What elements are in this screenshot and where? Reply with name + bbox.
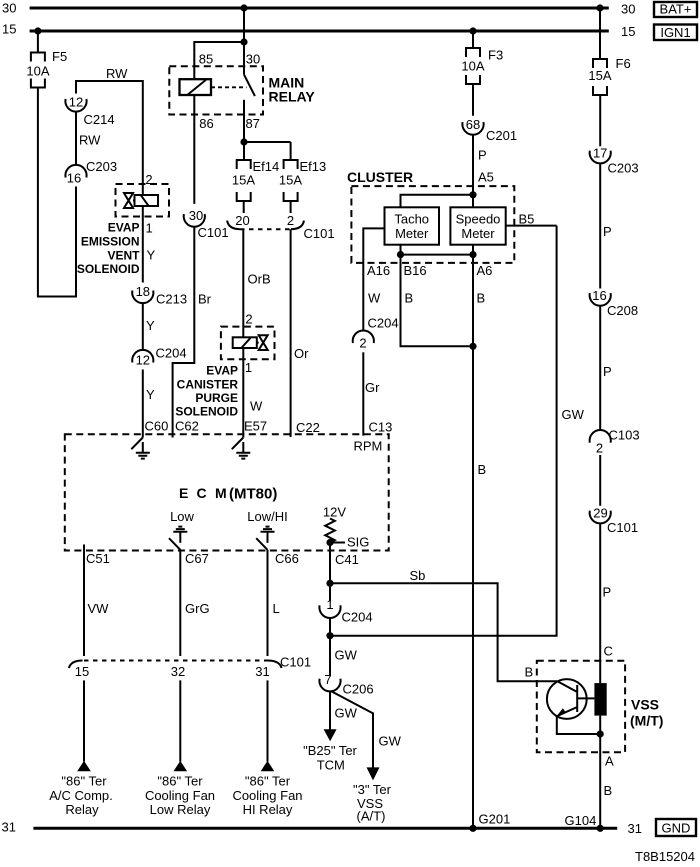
svg-text:C213: C213 — [156, 292, 187, 307]
svg-text:1: 1 — [245, 360, 252, 375]
wire Or: C101-2 to ECM pin C22 — [290, 229, 292, 437]
EVAP emission vent solenoid box — [116, 184, 170, 217]
svg-text:A16: A16 — [367, 263, 390, 278]
label EVAP EMISSION VENT SOLENOID — [77, 221, 140, 277]
ECM output C51 wire — [83, 545, 85, 657]
junction dot B16/A6 join — [469, 343, 476, 350]
svg-text:Ef14: Ef14 — [253, 159, 280, 174]
CLUSTER dashed box — [351, 186, 514, 263]
svg-text:(MT80): (MT80) — [229, 486, 277, 503]
wire bus15 to fuse F5 — [37, 31, 39, 53]
svg-text:12: 12 — [69, 95, 83, 110]
svg-text:P: P — [603, 224, 612, 239]
GND terminal box — [656, 819, 696, 836]
svg-text:C51: C51 — [86, 551, 110, 566]
svg-text:EVAP: EVAP — [108, 221, 140, 235]
wire F6 to C203 — [599, 95, 601, 146]
connector C101 pins 15/32/31 row — [69, 655, 311, 680]
label ECM (MT80) — [179, 485, 277, 503]
svg-text:F6: F6 — [616, 56, 631, 71]
junction dot G201 — [469, 825, 476, 832]
svg-text:15: 15 — [75, 664, 89, 679]
svg-text:C203: C203 — [608, 161, 639, 176]
svg-text:31: 31 — [2, 820, 16, 835]
svg-text:C60: C60 — [145, 419, 169, 434]
connector C214 pin 12 — [65, 95, 114, 128]
svg-text:Y: Y — [146, 318, 155, 333]
svg-text:T8B15204: T8B15204 — [635, 849, 695, 864]
svg-text:RELAY: RELAY — [269, 89, 316, 105]
fuse F5 — [26, 49, 67, 88]
svg-text:Cooling Fan: Cooling Fan — [145, 788, 215, 803]
connector C206 pin 7 — [319, 672, 373, 697]
svg-text:C214: C214 — [84, 112, 115, 127]
svg-text:G104: G104 — [565, 813, 597, 828]
svg-text:15A: 15A — [279, 173, 302, 188]
svg-text:(A/T): (A/T) — [357, 809, 386, 824]
connector C201 pin 68 — [462, 117, 517, 143]
label VSS (M/T) — [630, 697, 663, 729]
svg-text:B: B — [604, 783, 613, 798]
svg-text:"86" Ter: "86" Ter — [61, 774, 107, 789]
wire C204-1 down to C206 — [329, 618, 331, 676]
ground switch at C60 — [131, 438, 150, 459]
svg-text:C103: C103 — [609, 428, 640, 443]
transistor Q VSS — [547, 679, 595, 719]
connector C204 pin 2 — [353, 316, 399, 351]
wire VSS element to bus31 G104 — [599, 716, 601, 829]
svg-text:G201: G201 — [479, 812, 511, 827]
main relay coil — [180, 79, 212, 95]
wire SIG stub — [330, 542, 345, 544]
svg-text:12: 12 — [136, 353, 150, 368]
wire Br: C101-30 down, jog left, to ECM pin C62 — [173, 227, 195, 438]
junction dot bus15/F3 — [469, 27, 476, 34]
svg-text:1: 1 — [326, 597, 333, 612]
svg-text:30: 30 — [189, 208, 203, 223]
svg-text:TCM: TCM — [317, 758, 345, 773]
speedo meter box — [450, 207, 505, 244]
EVAP canister purge solenoid box — [221, 327, 275, 360]
svg-text:C62: C62 — [175, 419, 199, 434]
svg-text:Low Relay: Low Relay — [150, 802, 211, 817]
svg-text:C41: C41 — [335, 552, 359, 567]
svg-text:C101: C101 — [304, 226, 335, 241]
svg-text:29: 29 — [593, 506, 607, 521]
arrow to B25 TCM — [324, 729, 337, 741]
svg-text:2: 2 — [287, 213, 294, 228]
svg-text:15: 15 — [621, 24, 635, 39]
svg-text:E57: E57 — [244, 419, 267, 434]
wire P C101 to VSS — [599, 523, 601, 683]
svg-text:SIG: SIG — [347, 535, 369, 550]
svg-text:B: B — [477, 291, 486, 306]
svg-text:30: 30 — [621, 2, 635, 17]
wire C41 down from SIG node — [329, 543, 331, 602]
connector C208 pin 16 — [590, 288, 638, 318]
wire C67 — [179, 550, 181, 656]
wire relay pin 30 — [243, 42, 245, 75]
svg-text:L: L — [273, 601, 280, 616]
wire A5 branch to tacho meter — [401, 195, 474, 208]
wire RW net: C214 stub, horizontal, down to vent solenoid — [76, 81, 143, 196]
svg-text:SOLENOID: SOLENOID — [175, 405, 238, 419]
svg-text:GW: GW — [562, 407, 585, 422]
svg-text:20: 20 — [235, 213, 249, 228]
label B25 Ter TCM — [303, 743, 357, 773]
svg-text:P: P — [478, 148, 487, 163]
svg-text:EMISSION: EMISSION — [81, 235, 140, 249]
svg-text:Relay: Relay — [65, 802, 99, 817]
wire B5 from speedo meter — [506, 225, 557, 227]
svg-text:C22: C22 — [296, 420, 320, 435]
connector C103 pin 2 — [590, 428, 640, 456]
connector C204 pin 12 — [132, 346, 186, 368]
svg-text:A/C Comp.: A/C Comp. — [49, 788, 113, 803]
svg-text:VENT: VENT — [107, 249, 140, 263]
svg-text:B16: B16 — [404, 263, 427, 278]
arrow A/C relay — [77, 761, 91, 771]
wire F5 to C203 pin16 — [38, 88, 76, 297]
arrow cooling fan hi relay — [261, 761, 275, 771]
svg-text:"86" Ter: "86" Ter — [245, 774, 291, 789]
junction dot bus30/relay — [240, 4, 247, 11]
svg-text:HI Relay: HI Relay — [243, 802, 293, 817]
wire Ef14 to C101 pin 20 — [243, 201, 245, 213]
svg-text:10A: 10A — [461, 59, 484, 74]
svg-text:16: 16 — [592, 288, 606, 303]
label 86 Ter Cooling Fan HI Relay — [232, 774, 302, 818]
junction dot bus15/F5 — [34, 27, 41, 34]
svg-text:A5: A5 — [478, 170, 494, 185]
svg-text:SOLENOID: SOLENOID — [77, 262, 140, 276]
svg-text:15A: 15A — [232, 173, 255, 188]
svg-text:Or: Or — [294, 346, 309, 361]
svg-text:C101: C101 — [607, 520, 638, 535]
svg-text:17: 17 — [593, 146, 607, 161]
svg-text:32: 32 — [171, 664, 185, 679]
wire 87 split to fuses — [244, 142, 291, 160]
wire RW between C214 and C203 — [75, 112, 77, 166]
svg-text:16: 16 — [67, 171, 81, 186]
svg-text:B: B — [405, 291, 414, 306]
svg-text:C13: C13 — [369, 420, 393, 435]
svg-text:F5: F5 — [52, 49, 67, 64]
wire Gr to ECM pin C13 — [362, 352, 364, 435]
svg-text:Gr: Gr — [365, 380, 380, 395]
connector C203 pin 16 — [65, 159, 117, 186]
svg-text:P: P — [603, 585, 612, 600]
wire P to cluster A5 — [472, 135, 474, 208]
svg-text:CANISTER: CANISTER — [177, 378, 239, 392]
svg-text:F3: F3 — [488, 48, 503, 63]
svg-text:15: 15 — [2, 22, 16, 37]
svg-text:P: P — [603, 364, 612, 379]
connector C204 pin 1 — [319, 597, 372, 625]
svg-text:2: 2 — [359, 336, 366, 351]
svg-text:C: C — [197, 485, 207, 501]
wire joining B16/A6 — [401, 254, 474, 256]
IGN1 terminal box — [654, 25, 697, 41]
junction dot Sb split — [326, 580, 333, 587]
svg-text:RPM: RPM — [354, 439, 383, 454]
svg-text:C203: C203 — [86, 159, 117, 174]
wire Ef13 to C101 pin 2 — [290, 201, 292, 213]
svg-text:C101: C101 — [198, 225, 229, 240]
svg-text:C206: C206 — [343, 682, 374, 697]
svg-text:10A: 10A — [26, 64, 49, 79]
connector C101 pin 30 — [184, 208, 229, 240]
wire GW to B25 TCM arrow — [329, 691, 331, 730]
svg-text:Meter: Meter — [461, 226, 495, 241]
VSS sensing element black rect — [594, 683, 606, 716]
wire GW to VSS column — [330, 226, 557, 636]
wire Sb to transistor base — [330, 583, 557, 681]
svg-text:BAT+: BAT+ — [660, 2, 692, 17]
wire speedo A6 down long B wire to G201 — [472, 245, 474, 829]
dashed coil-switch link — [211, 86, 247, 88]
junction dot SIG — [326, 539, 333, 546]
svg-text:"86" Ter: "86" Ter — [157, 774, 203, 789]
svg-text:A6: A6 — [477, 263, 493, 278]
wire OrB: C101-20 to purge solenoid — [242, 229, 244, 337]
svg-text:Low/HI: Low/HI — [247, 509, 287, 524]
svg-text:2: 2 — [596, 441, 603, 456]
svg-text:30: 30 — [2, 1, 16, 16]
label 3 Ter VSS (A/T) — [353, 782, 392, 824]
wire relay pin 87 down — [243, 100, 245, 142]
wire bus30 to main relay — [243, 8, 245, 42]
svg-text:"3" Ter: "3" Ter — [353, 782, 392, 797]
fuse Ef13 — [279, 159, 326, 201]
svg-text:2: 2 — [245, 312, 252, 327]
svg-text:CLUSTER: CLUSTER — [347, 169, 413, 185]
junction dot 87 split — [240, 138, 247, 145]
svg-text:Br: Br — [198, 292, 212, 307]
junction dot G104 — [597, 825, 604, 832]
ECM low fan switch — [169, 509, 195, 550]
wire bus15 to fuse F3 — [472, 31, 474, 48]
svg-text:IGN1: IGN1 — [660, 25, 690, 40]
fuse F3 — [461, 48, 503, 85]
svg-text:E: E — [179, 485, 188, 501]
label MAIN RELAY — [269, 75, 316, 105]
fuse Ef14 — [232, 159, 279, 201]
label 86 Ter A/C Comp. Relay — [49, 774, 113, 818]
svg-text:PURGE: PURGE — [195, 391, 238, 405]
svg-text:1: 1 — [146, 221, 153, 236]
wire P C208 to C103 — [599, 306, 601, 431]
svg-text:GW: GW — [335, 706, 358, 721]
junction dot relay branch — [240, 38, 247, 45]
wire F3 to C201 — [472, 84, 474, 116]
VSS dashed box — [537, 661, 625, 753]
svg-text:12V: 12V — [323, 505, 346, 520]
svg-text:31: 31 — [628, 821, 642, 836]
svg-text:15A: 15A — [588, 68, 611, 83]
wire relay coil 86 to C101 pin 30 — [193, 95, 195, 204]
wire GW diagonal to 3 Ter VSS — [332, 691, 374, 768]
svg-text:GW: GW — [335, 648, 358, 663]
connector C101 pins 20/2 row — [227, 213, 334, 241]
ground switch at E57 — [232, 438, 251, 459]
svg-text:Ef13: Ef13 — [300, 159, 327, 174]
connector C203 pin 17 — [590, 146, 639, 176]
svg-text:30: 30 — [246, 52, 260, 67]
svg-text:C201: C201 — [486, 128, 517, 143]
connector C213 pin 18 — [132, 284, 187, 307]
connector C101 pin 29 — [590, 506, 638, 536]
svg-text:Y: Y — [146, 387, 155, 402]
svg-text:RW: RW — [79, 133, 101, 148]
wire W: purge solenoid to ECM pin E57 — [242, 348, 244, 438]
svg-text:Tacho: Tacho — [394, 212, 429, 227]
svg-text:EVAP: EVAP — [206, 364, 238, 378]
wire bus30 to fuse F6 — [599, 8, 601, 59]
ECM low/hi fan switch — [247, 509, 287, 550]
svg-text:Y: Y — [147, 248, 156, 263]
wire to A/C relay arrow — [83, 680, 85, 761]
bus 30 rail — [30, 7, 609, 10]
tacho meter box — [385, 207, 440, 244]
svg-text:C66: C66 — [275, 551, 299, 566]
BAT+ terminal box — [654, 2, 697, 18]
svg-text:W: W — [368, 291, 381, 306]
svg-text:OrB: OrB — [248, 272, 271, 287]
svg-text:Cooling Fan: Cooling Fan — [232, 788, 302, 803]
label 86 Ter Cooling Fan Low Relay — [145, 774, 215, 818]
svg-text:B5: B5 — [519, 212, 535, 227]
svg-text:C67: C67 — [185, 551, 209, 566]
ECM internal 12V pull-up resistor — [323, 505, 346, 543]
svg-text:C204: C204 — [342, 610, 373, 625]
svg-text:GW: GW — [379, 734, 402, 749]
svg-text:A: A — [605, 754, 614, 769]
svg-text:RW: RW — [106, 66, 128, 81]
svg-text:VW: VW — [88, 601, 110, 616]
wire C213 to C204 — [142, 303, 144, 350]
svg-text:C204: C204 — [368, 316, 399, 331]
svg-text:87: 87 — [245, 116, 259, 131]
svg-text:C101: C101 — [280, 655, 311, 670]
junction dot GW split — [326, 632, 333, 639]
svg-text:Sb: Sb — [410, 568, 426, 583]
wire A16 from tacho — [363, 228, 384, 330]
junction dot A5 — [469, 191, 476, 198]
svg-text:(M/T): (M/T) — [630, 713, 663, 729]
arrow cooling fan low relay — [174, 761, 188, 771]
wire C66 — [267, 550, 269, 656]
svg-text:Low: Low — [170, 509, 194, 524]
wire emitter to main column — [557, 716, 600, 734]
svg-text:GrG: GrG — [185, 601, 210, 616]
svg-text:C: C — [604, 644, 613, 659]
svg-text:B: B — [525, 665, 534, 680]
junction dot A6 — [469, 251, 476, 258]
junction dot B16 — [397, 251, 404, 258]
arrow to 3 Ter VSS — [367, 767, 380, 780]
svg-text:31: 31 — [255, 664, 269, 679]
svg-text:86: 86 — [199, 116, 213, 131]
wire vent solenoid to C213 — [142, 206, 144, 283]
ECM dashed box — [65, 434, 389, 550]
bus 15 rail — [30, 30, 609, 33]
svg-text:C208: C208 — [607, 303, 638, 318]
wire C103 to C101 — [599, 455, 601, 506]
main relay dashed box — [169, 66, 263, 114]
bus 31 ground rail — [33, 827, 617, 830]
wire P C203 to C208 — [599, 163, 601, 288]
svg-text:"B25" Ter: "B25" Ter — [303, 743, 357, 758]
svg-text:C204: C204 — [156, 346, 187, 361]
wire tacho B16 down — [401, 245, 474, 347]
main relay switch blade — [244, 75, 255, 96]
svg-text:GND: GND — [662, 821, 691, 836]
svg-text:W: W — [250, 399, 263, 414]
wire C204 to ECM pin C60 — [142, 370, 144, 438]
svg-text:B: B — [478, 462, 487, 477]
junction dot emitter — [597, 730, 604, 737]
svg-text:M: M — [215, 485, 227, 501]
junction dot bus30/F6 — [596, 4, 603, 11]
svg-text:18: 18 — [136, 284, 150, 299]
svg-text:7: 7 — [324, 672, 331, 687]
fuse F6 — [588, 56, 630, 95]
wire to cooling fan hi relay arrow — [267, 680, 269, 761]
svg-text:Speedo: Speedo — [456, 212, 501, 227]
svg-text:VSS: VSS — [631, 697, 659, 713]
svg-text:68: 68 — [466, 117, 480, 132]
wire relay branch to coil pin 85 — [194, 42, 244, 79]
wire to cooling fan low relay arrow — [179, 680, 181, 761]
svg-text:85: 85 — [199, 52, 213, 67]
label EVAP CANISTER PURGE SOLENOID — [175, 364, 238, 419]
svg-text:Meter: Meter — [395, 226, 429, 241]
